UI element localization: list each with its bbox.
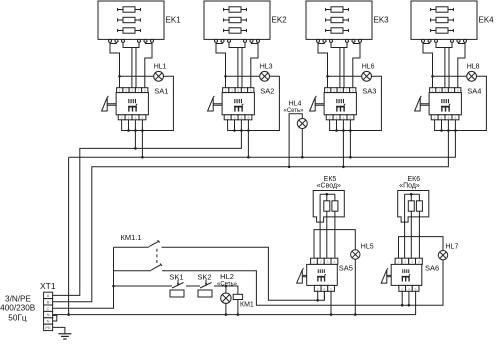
wire phase B bus: XT1-B up and across to SA4	[53, 120, 449, 302]
svg-text:HL2: HL2	[220, 272, 234, 281]
svg-text:8: 8	[248, 116, 250, 120]
node junction HL4 on neutral bus	[301, 156, 304, 159]
node junction SA1 on neutral bus	[141, 156, 144, 159]
svg-text:HL7: HL7	[446, 243, 459, 250]
svg-text:SA3: SA3	[362, 86, 376, 95]
svg-text:400/230В: 400/230В	[0, 304, 36, 313]
cam switch SA3 body	[324, 93, 356, 115]
cam switch SA5 body	[307, 264, 338, 285]
cam switch SA3 top terminal row (pins 1,3,5,7,9)	[325, 88, 356, 93]
wires SA5 bottom terminals 1-2 to KM1.1 feed	[318, 291, 325, 300]
svg-text:4: 4	[336, 116, 338, 120]
cam switch SA5 handle	[297, 268, 307, 283]
node junction HL5 on neutral line	[354, 313, 357, 316]
cam switch SA1 body	[116, 93, 148, 115]
node junction SA3 on phase B bus	[342, 166, 345, 169]
svg-text:8: 8	[350, 116, 352, 120]
svg-text:2: 2	[401, 287, 403, 291]
cam switch SA5 position marks	[317, 269, 325, 281]
cam switch SA1 top terminal row (pins 1,3,5,7,9)	[117, 88, 148, 93]
svg-text:N: N	[47, 319, 50, 324]
svg-text:HL6: HL6	[362, 63, 375, 70]
wires EK3 terminals 3-4 T-link down to SA3 top terminals 5-7	[331, 42, 347, 87]
terminals of EK3 (6 circles)	[317, 39, 362, 42]
svg-text:«Сеть»: «Сеть»	[283, 108, 304, 114]
svg-text:SA5: SA5	[339, 264, 353, 273]
svg-text:8: 8	[142, 116, 144, 120]
wire KM1 coil bottom to neutral line	[237, 300, 239, 315]
cam switch SA6 body	[391, 264, 422, 285]
node junction lamp HL6 tap	[326, 75, 329, 78]
contactor coil KM1	[233, 294, 242, 299]
svg-text:КМ1: КМ1	[240, 302, 254, 309]
signal lamp HL5	[351, 250, 360, 259]
cam switch SA5 top terminal row	[311, 258, 338, 264]
node junctions on SA1 bottom wire	[127, 129, 130, 132]
wires EK2 terminals 3-4 T-link down to SA2 top terminals 5-7	[229, 42, 245, 87]
svg-text:2: 2	[121, 116, 123, 120]
svg-text:SA1: SA1	[154, 86, 168, 95]
cam switch SA2 handle	[208, 96, 223, 111]
terminals of EK1 (6 circles)	[109, 39, 154, 42]
node junctions on SA2 bottom wire	[233, 129, 236, 132]
node junction lamp HL1 tap	[118, 75, 121, 78]
svg-text:3: 3	[327, 260, 329, 264]
svg-text:1: 1	[398, 260, 400, 264]
svg-text:SK1: SK1	[169, 273, 183, 282]
node junction HL2 tap	[225, 285, 228, 288]
svg-text:«Свод»: «Свод»	[317, 182, 341, 189]
svg-text:HL8: HL8	[467, 63, 480, 70]
cam switch SA1 position marks	[128, 99, 137, 112]
wire SA3 pin6 down to phase B bus	[342, 120, 344, 167]
svg-text:3/N/PE: 3/N/PE	[5, 294, 31, 303]
node junction SA1 on phase A bus	[134, 147, 137, 150]
svg-text:3: 3	[411, 260, 413, 264]
signal lamp HL6	[362, 71, 372, 81]
wires EK1 terminals 3-4 T-link down to SA1 top terminals 5-7	[123, 42, 139, 87]
signal lamp HL2	[221, 293, 231, 303]
wire lamp HL3 left lead tap	[226, 75, 260, 77]
heater bank ЕК6 (2 vertical elements)	[398, 191, 429, 223]
svg-text:8: 8	[455, 116, 457, 120]
node junction SA2 on neutral bus	[247, 156, 250, 159]
svg-text:SA6: SA6	[425, 264, 439, 273]
wire HL4 bottom lead to neutral bus	[301, 129, 303, 158]
wires SA6 bottom terminals 1-2 to KM1.1 feed	[402, 291, 409, 305]
svg-text:HL4: HL4	[289, 101, 302, 108]
cam switch SA2 bottom terminal row (pins 2,4,6,8)	[224, 115, 252, 120]
signal lamp HL4	[297, 119, 307, 129]
wire XT1 N-N jumper	[53, 315, 57, 321]
node junctions SA6 feed	[401, 304, 404, 307]
wire control line between SK1 and SK2	[186, 285, 200, 287]
cam switch SA1 bottom terminal row (pins 2,4,6,8)	[118, 115, 146, 120]
wire neutral bus across to SA4	[69, 120, 456, 157]
wire SA3 pin8 down to neutral bus	[349, 120, 351, 157]
node junction lamp HL3 tap	[224, 75, 227, 78]
svg-text:SK2: SK2	[197, 273, 211, 282]
node junctions on SA4 bottom wire	[440, 129, 443, 132]
svg-text:«Сеть»: «Сеть»	[217, 281, 238, 287]
heater bank EK1 (box with 3 heating elements)	[98, 1, 164, 39]
svg-text:C: C	[47, 306, 50, 311]
cam switch SA2 position marks	[234, 99, 243, 112]
wire lamp HL1 left lead tap	[120, 75, 154, 77]
cam switch SA4 position marks	[441, 99, 450, 112]
node junction KM1 coil on neutral line	[237, 313, 240, 316]
svg-text:2: 2	[329, 116, 331, 120]
svg-text:EK4: EK4	[479, 16, 495, 25]
node junction neutral riser on XT1-N line	[67, 313, 70, 316]
heater bank EK2 (box with 3 heating elements)	[204, 1, 270, 39]
cam switch SA4 bottom terminal row (pins 2,4,6,8)	[431, 115, 459, 120]
wire HL4 top lead to phase B bus	[289, 114, 302, 167]
wires EK4 terminals 5-6 jumper down to SA4 top terminal 9	[458, 42, 465, 87]
svg-text:6: 6	[241, 116, 243, 120]
node junction lamp HL8 tap	[431, 75, 434, 78]
cam switch SA5 bottom terminal row	[314, 285, 334, 291]
wire SA1 pin6 down to phase A bus	[134, 120, 136, 149]
wires ЕК5 leads down to SA5 top terminals	[320, 194, 335, 258]
wire lamp HL8 right lead loop down to SA4 bottom terminals	[435, 76, 487, 130]
wires EK1 terminals 1-2 jumper down to SA1 top terminal 1	[110, 42, 120, 87]
cam switch SA1 handle	[102, 96, 117, 111]
cam switch SA3 handle	[310, 96, 325, 111]
svg-text:6: 6	[415, 287, 417, 291]
cam switch SA3 bottom terminal row (pins 2,4,6,8)	[326, 115, 354, 120]
wires EK3 terminals 5-6 jumper down to SA3 top terminal 9	[353, 42, 360, 87]
svg-text:6: 6	[330, 287, 332, 291]
svg-text:XT1: XT1	[40, 281, 56, 291]
wires EK2 terminals 5-6 jumper down to SA2 top terminal 9	[251, 42, 258, 87]
svg-text:6: 6	[135, 116, 137, 120]
cam switch SA6 position marks	[402, 269, 410, 281]
svg-text:«Под»: «Под»	[399, 182, 420, 189]
wire lamp HL6 right lead loop down to SA3 bottom terminals	[330, 76, 382, 130]
svg-text:EK1: EK1	[166, 16, 182, 25]
heater bank EK3 (box with 3 heating elements)	[306, 1, 372, 39]
wire phase C: XT1-C to contactor KM1.1 riser	[53, 247, 114, 308]
node junctions on SA3 bottom wire	[335, 129, 338, 132]
wire phase A bus: XT1-A up and across to SA2	[53, 120, 242, 296]
node junction control line tap	[112, 285, 115, 288]
svg-text:2: 2	[434, 116, 436, 120]
wires EK4 terminals 1-2 jumper down to SA4 top terminal 1	[423, 42, 433, 87]
terminals of EK4 (6 circles)	[422, 39, 467, 42]
svg-text:A: A	[47, 293, 50, 298]
wire HL2 bottom lead to neutral line	[225, 303, 227, 314]
svg-text:6: 6	[448, 116, 450, 120]
wires EK2 terminals 1-2 jumper down to SA2 top terminal 1	[216, 42, 226, 87]
wire HL5 bottom lead to neutral line	[354, 259, 356, 314]
svg-text:EK3: EK3	[374, 16, 390, 25]
wire SA5 bottom terminal 3 to neutral line	[330, 291, 332, 314]
thermal switch SK2	[198, 280, 212, 297]
svg-text:2: 2	[320, 260, 322, 264]
cam switch SA4 handle	[415, 96, 430, 111]
svg-text:EK2: EK2	[272, 16, 288, 25]
wire lamp HL1 right lead loop down to SA1 bottom terminals	[122, 76, 174, 130]
svg-text:HL1: HL1	[154, 63, 167, 70]
svg-text:HL5: HL5	[361, 243, 374, 250]
wires ЕК6 leads down to SA6 top terminals	[405, 194, 420, 258]
svg-text:B: B	[47, 299, 50, 304]
wire neutral riser down to XT1-N line	[68, 157, 70, 314]
cam switch SA4 top terminal row (pins 1,3,5,7,9)	[430, 88, 461, 93]
node junction HL4 on phase B bus	[288, 166, 291, 169]
ground (earth symbol)	[58, 334, 71, 339]
svg-text:HL3: HL3	[260, 63, 273, 70]
contactor KM1.1 mechanical link (dashed)	[156, 249, 158, 265]
svg-text:6: 6	[343, 116, 345, 120]
svg-text:2: 2	[404, 260, 406, 264]
wires EK1 terminals 5-6 jumper down to SA1 top terminal 9	[145, 42, 152, 87]
svg-text:SA4: SA4	[467, 86, 481, 95]
terminals of EK2 (6 circles)	[215, 39, 260, 42]
node junction SA5 on neutral line	[330, 313, 333, 316]
contactor contact KM1.1 pole 1 (feeds SA5 circuit)	[114, 240, 325, 300]
terminal block XT1 (A,B,C,N,N,PE)	[44, 292, 53, 330]
cam switch SA4 body	[429, 93, 461, 115]
wire SA2 pin8 down to neutral bus	[247, 120, 249, 157]
wire lamp HL6 left lead tap	[328, 75, 362, 77]
signal lamp HL7	[438, 251, 447, 260]
wire lamp HL8 left lead tap	[433, 75, 467, 77]
wire SA5 top terminal 1 loop to lamp HL5 top	[314, 230, 355, 259]
signal lamp HL1	[154, 71, 164, 81]
wire control line from SK2 to KM1 coil	[214, 286, 238, 294]
svg-text:4: 4	[128, 116, 130, 120]
wire control line from phase C riser	[114, 285, 173, 287]
cam switch SA6 bottom terminal row	[399, 285, 419, 291]
svg-text:50Гц: 50Гц	[8, 313, 27, 322]
cam switch SA6 top terminal row	[395, 258, 422, 264]
wire SA1 pin8 down to neutral bus	[141, 120, 143, 157]
svg-text:1: 1	[313, 260, 315, 264]
wires EK4 terminals 3-4 T-link down to SA4 top terminals 5-7	[436, 42, 452, 87]
contactor contact KM1.1 pole 2 (feeds SA6 circuit)	[114, 260, 444, 305]
wire XT1-N line across bottom to SA6	[53, 291, 416, 314]
svg-text:4: 4	[441, 116, 443, 120]
cam switch SA2 top terminal row (pins 1,3,5,7,9)	[223, 88, 254, 93]
svg-text:PE: PE	[45, 325, 51, 330]
wires EK3 terminals 1-2 jumper down to SA3 top terminal 1	[318, 42, 328, 87]
wire XT1-PE to earth	[53, 327, 65, 333]
svg-text:2: 2	[317, 287, 319, 291]
svg-text:2: 2	[227, 116, 229, 120]
wire SA6 top terminal 1 loop to lamp HL7 top	[399, 237, 444, 259]
node junction HL2 on neutral line	[225, 313, 228, 316]
svg-text:4: 4	[234, 116, 236, 120]
signal lamp HL3	[260, 71, 270, 81]
cam switch SA6 handle	[381, 268, 391, 283]
svg-text:КМ1.1: КМ1.1	[121, 233, 142, 242]
node junction SA3 on neutral bus	[349, 156, 352, 159]
cam switch SA3 position marks	[336, 99, 345, 112]
cam switch SA2 body	[222, 93, 254, 115]
label supply 3/N/PE 400/230V 50Hz	[0, 294, 36, 322]
wire HL2 top lead	[225, 286, 227, 293]
thermal switch SK1	[170, 280, 184, 297]
svg-text:N: N	[47, 312, 50, 317]
svg-text:4: 4	[418, 260, 420, 264]
signal lamp HL8	[467, 71, 477, 81]
svg-text:4: 4	[323, 287, 325, 291]
svg-text:4: 4	[333, 260, 335, 264]
svg-text:SA2: SA2	[260, 86, 274, 95]
heater bank ЕК5 (2 vertical elements)	[313, 191, 344, 223]
node junction SA5 feed	[316, 299, 319, 302]
heater bank EK4 (box with 3 heating elements)	[411, 1, 477, 39]
wire lamp HL3 right lead loop down to SA2 bottom terminals	[228, 76, 280, 130]
svg-text:4: 4	[408, 287, 410, 291]
